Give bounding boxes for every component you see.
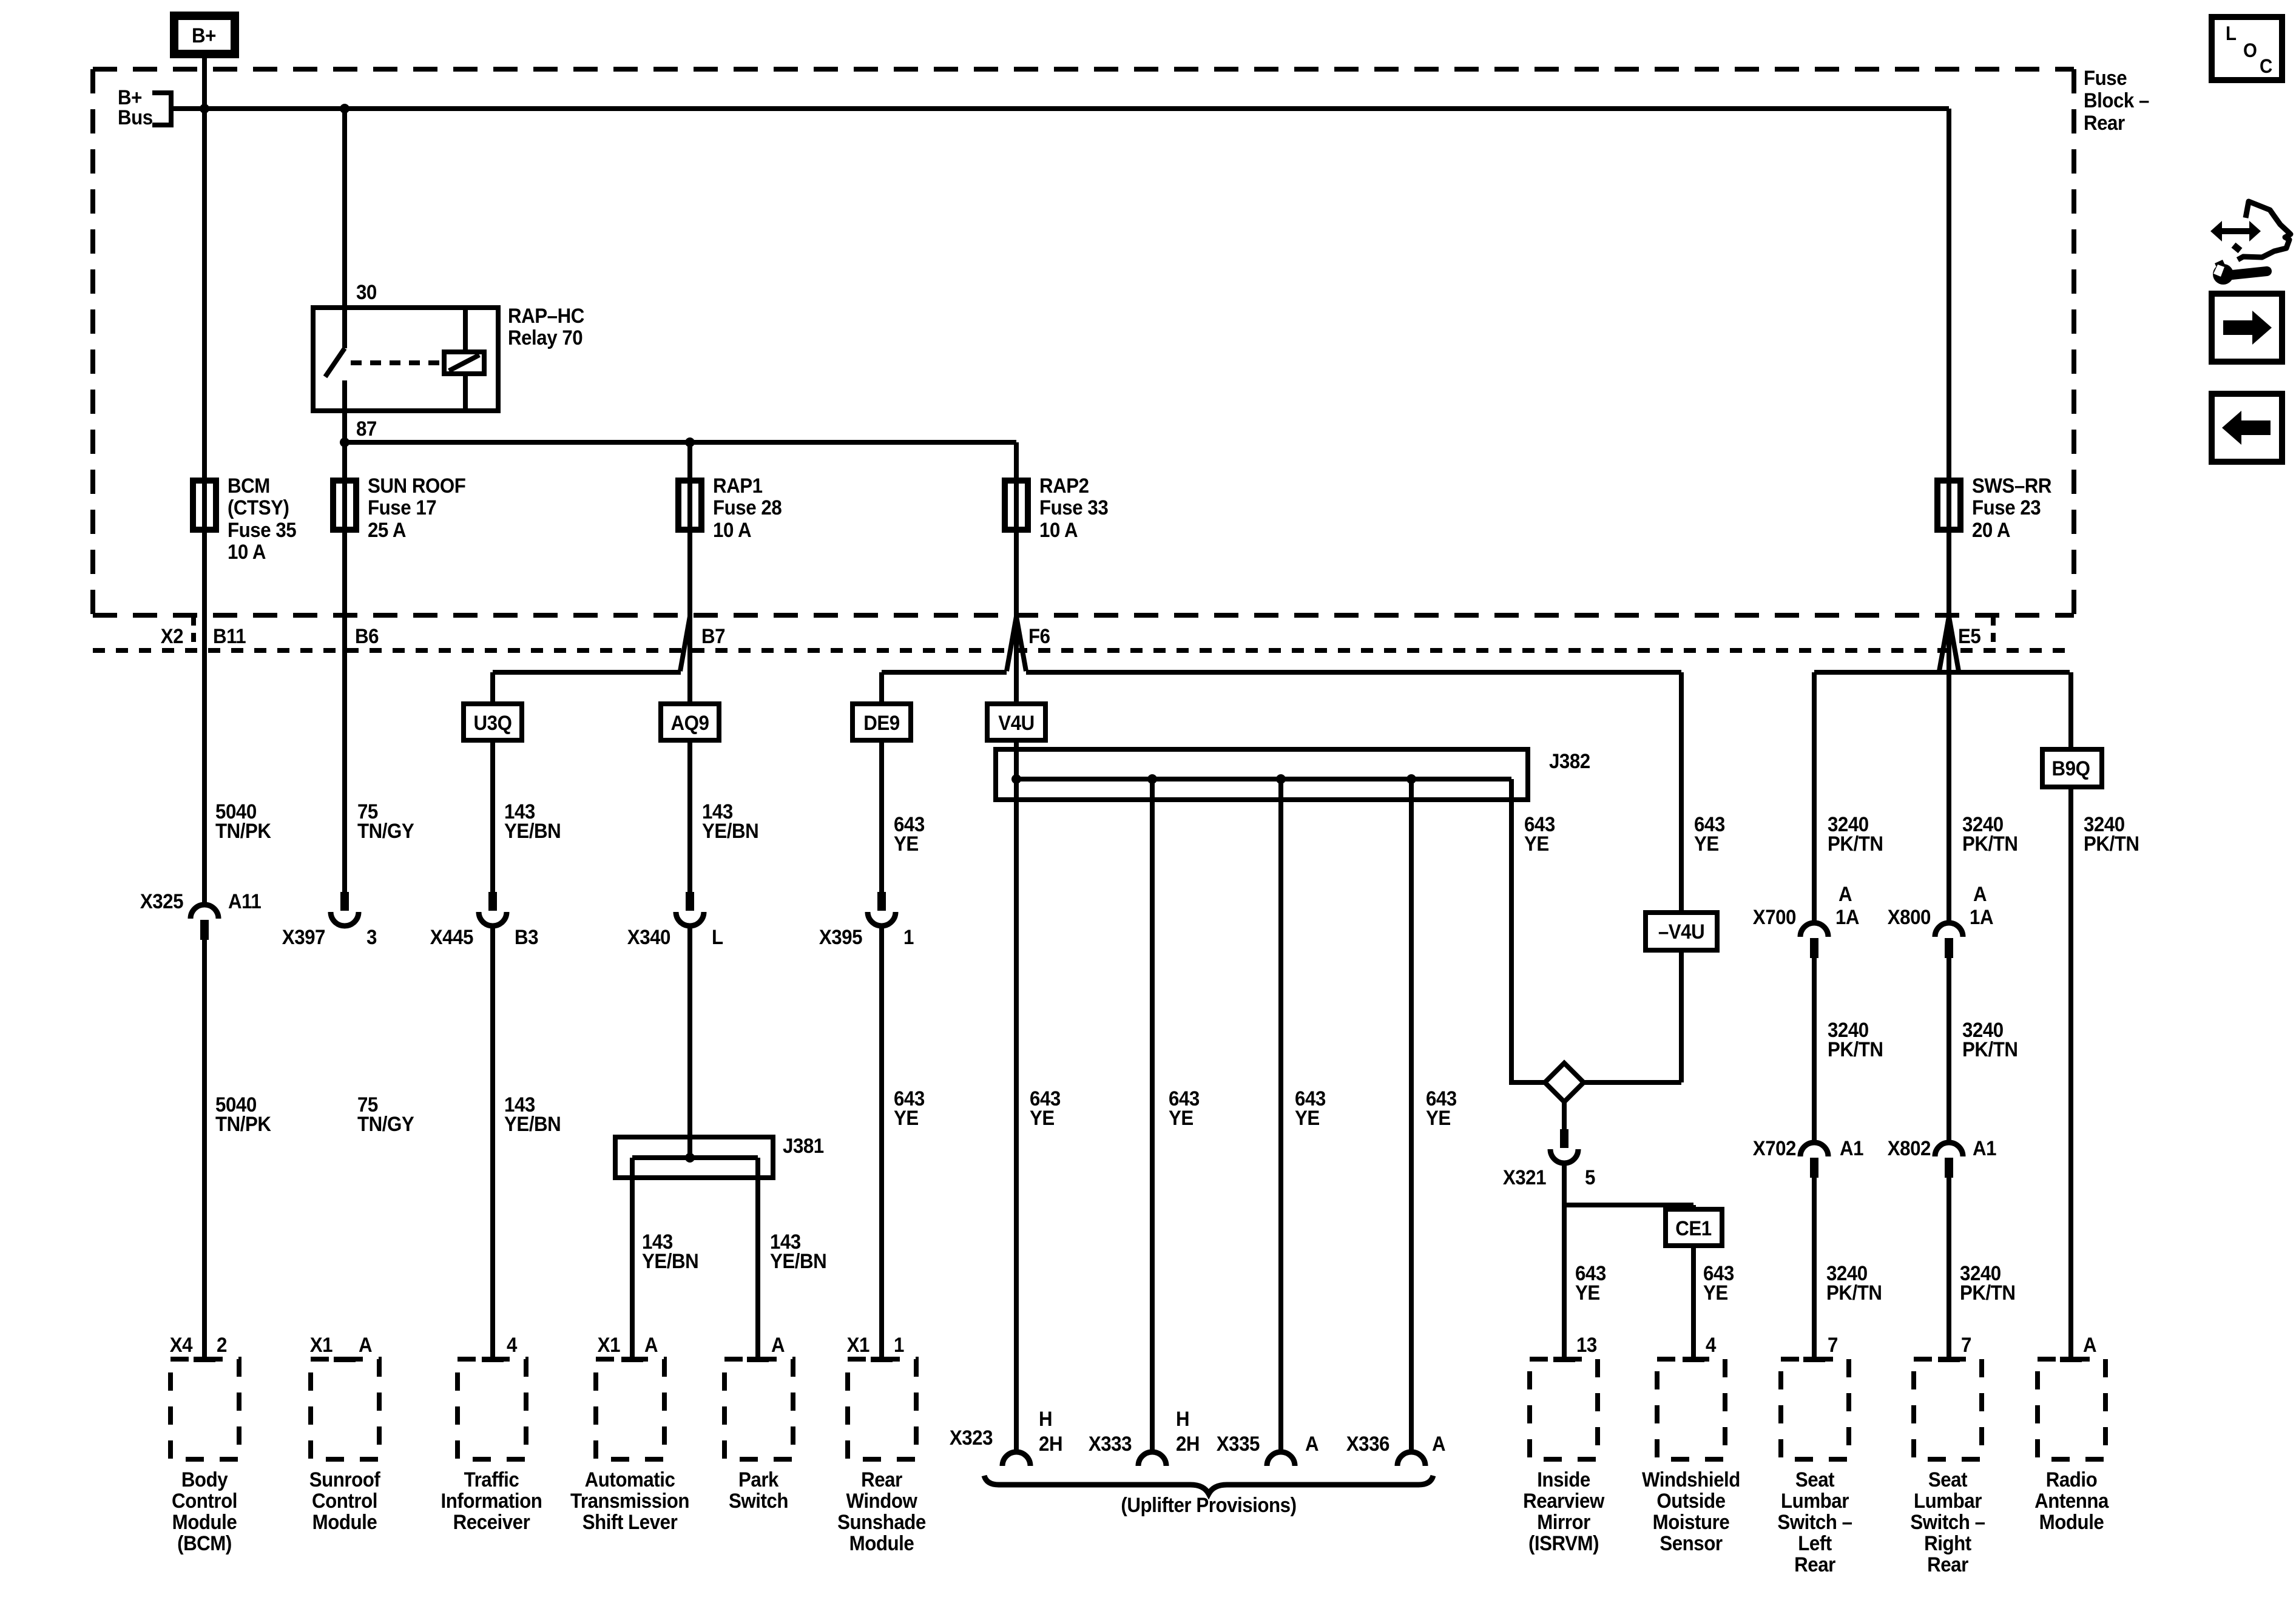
svg-text:YE: YE: [894, 832, 919, 856]
terminal bar Park: [747, 1357, 769, 1362]
svg-text:RAP–HC: RAP–HC: [508, 304, 584, 328]
wire X800 to X802: [1947, 954, 1951, 1143]
svg-text:B9Q: B9Q: [2052, 757, 2090, 780]
wire X395 to Rear Window Sunshade Module: [879, 925, 884, 1359]
svg-text:SWS–RR: SWS–RR: [1972, 474, 2051, 498]
wire X445 to Traffic Information Receiver: [490, 925, 495, 1359]
junction 87/RAP1: [685, 437, 695, 447]
svg-text:Park: Park: [738, 1468, 779, 1491]
svg-text:2H: 2H: [1039, 1432, 1062, 1456]
svg-text:A1: A1: [1840, 1136, 1863, 1160]
svg-text:Traffic: Traffic: [464, 1468, 519, 1491]
svg-text:X335: X335: [1217, 1432, 1260, 1456]
svg-text:Switch –: Switch –: [1910, 1510, 1985, 1534]
svg-text:Module: Module: [2039, 1510, 2104, 1534]
svg-text:A: A: [1305, 1432, 1319, 1456]
svg-text:Fuse 33: Fuse 33: [1039, 496, 1108, 519]
svg-text:Body: Body: [181, 1468, 228, 1491]
svg-text:A: A: [2083, 1333, 2096, 1357]
svg-text:Inside: Inside: [1537, 1468, 1590, 1491]
svg-text:Rear: Rear: [1927, 1553, 1968, 1576]
svg-text:Switch: Switch: [729, 1489, 788, 1513]
icon service hand with double arrow and wrench: [2210, 221, 2261, 241]
connector code box V4U: [987, 704, 1045, 740]
splice junction: [1406, 774, 1416, 784]
svg-text:YE/BN: YE/BN: [504, 819, 561, 843]
svg-text:RAP2: RAP2: [1039, 474, 1089, 498]
icon LOC box: [2212, 17, 2282, 80]
svg-text:PK/TN: PK/TN: [1826, 1281, 1882, 1305]
X2 band right separator: [1991, 616, 1996, 649]
svg-text:10 A: 10 A: [228, 540, 266, 564]
wire X340 to J381: [687, 925, 692, 1158]
svg-text:1A: 1A: [1970, 905, 1993, 929]
svg-text:X1: X1: [847, 1333, 870, 1357]
splice pack J381: [615, 1137, 773, 1178]
svg-text:(ISRVM): (ISRVM): [1528, 1531, 1599, 1555]
svg-text:J381: J381: [783, 1134, 824, 1158]
svg-text:Fuse 35: Fuse 35: [228, 518, 297, 542]
X2 band left separator: [191, 616, 196, 649]
wire X702 to Seat Lumbar Switch Left: [1812, 1175, 1817, 1359]
svg-text:YE: YE: [1295, 1106, 1320, 1130]
terminal bar Radio: [2060, 1357, 2082, 1362]
svg-text:H: H: [1039, 1407, 1052, 1431]
wire B+ bus through SWS-RR fuse to E5: [1947, 109, 1951, 616]
terminal bar Moisture: [1683, 1357, 1704, 1362]
connector band X2 lower dotted line: [93, 648, 2074, 653]
svg-text:CE1: CE1: [1675, 1217, 1712, 1240]
svg-text:YE: YE: [1703, 1281, 1728, 1305]
svg-text:YE/BN: YE/BN: [770, 1249, 826, 1273]
svg-text:DE9: DE9: [863, 711, 899, 735]
diamond splice junction: [1545, 1063, 1584, 1102]
svg-text:TN/PK: TN/PK: [215, 1112, 271, 1136]
svg-text:E5: E5: [1958, 624, 1981, 648]
svg-text:L: L: [712, 925, 723, 949]
wire X325 to BCM: [202, 940, 207, 1359]
fuse block dashed border: [93, 67, 2074, 72]
svg-text:H: H: [1176, 1407, 1189, 1431]
svg-text:X802: X802: [1888, 1136, 1931, 1160]
svg-text:B7: B7: [701, 624, 725, 648]
J382 internal bus: [1016, 777, 1511, 781]
svg-text:7: 7: [1828, 1333, 1838, 1357]
svg-text:Sunroof: Sunroof: [309, 1468, 380, 1491]
relay actuator dashed link: [351, 360, 441, 365]
svg-text:X445: X445: [430, 925, 473, 949]
svg-text:1: 1: [903, 925, 914, 949]
component box Body Control Module: [171, 1359, 239, 1459]
wire diamond right arm: [1584, 1080, 1681, 1085]
svg-text:X397: X397: [282, 925, 325, 949]
wire E5 to X700: [1812, 672, 1817, 923]
svg-text:A1: A1: [1973, 1136, 1996, 1160]
svg-text:Rear: Rear: [2084, 111, 2125, 135]
svg-text:X1: X1: [310, 1333, 333, 1357]
svg-text:(Uplifter Provisions): (Uplifter Provisions): [1121, 1493, 1296, 1517]
wire J382 to X335: [1278, 779, 1283, 1453]
connector code box AQ9: [661, 704, 719, 740]
svg-text:F6: F6: [1028, 624, 1050, 648]
wire J382 to X336: [1409, 779, 1414, 1453]
svg-text:Information: Information: [441, 1489, 542, 1513]
svg-text:YE: YE: [1426, 1106, 1451, 1130]
svg-text:A: A: [1973, 882, 1987, 906]
svg-text:A: A: [1432, 1432, 1445, 1456]
svg-text:Module: Module: [849, 1531, 914, 1555]
svg-text:A: A: [359, 1333, 372, 1357]
wire J381 to Automatic Transmission Shift Lever: [630, 1158, 635, 1359]
wire U3Q to X445: [490, 740, 495, 892]
svg-text:Automatic: Automatic: [585, 1468, 675, 1491]
svg-text:3: 3: [366, 925, 377, 949]
svg-text:X336: X336: [1346, 1432, 1389, 1456]
svg-text:87: 87: [356, 417, 377, 441]
wire bus to relay pin 30: [342, 109, 347, 308]
wire 87 distribution: [345, 440, 1016, 445]
svg-text:X333: X333: [1089, 1432, 1132, 1456]
svg-text:Antenna: Antenna: [2034, 1489, 2109, 1513]
wire AQ9 to X340: [687, 740, 692, 892]
svg-text:Switch –: Switch –: [1777, 1510, 1852, 1534]
wire V4U to J382: [1014, 740, 1019, 779]
svg-text:20 A: 20 A: [1972, 518, 2010, 542]
svg-text:1: 1: [894, 1333, 904, 1357]
svg-text:X323: X323: [950, 1426, 993, 1450]
relay coil: [444, 352, 484, 374]
wire 87 through RAP1 fuse and B7 to AQ9: [687, 442, 692, 704]
svg-text:A: A: [771, 1333, 785, 1357]
icon arrow right box: [2212, 294, 2282, 362]
in-line connector X802: [1935, 1143, 1963, 1156]
svg-text:O: O: [2243, 39, 2257, 61]
svg-text:PK/TN: PK/TN: [1960, 1281, 2016, 1305]
svg-text:B11: B11: [213, 624, 246, 648]
svg-text:Module: Module: [172, 1510, 237, 1534]
svg-text:Receiver: Receiver: [453, 1510, 530, 1534]
svg-text:Sunshade: Sunshade: [837, 1510, 926, 1534]
wire E5 to B9Q: [2068, 672, 2073, 749]
svg-text:YE: YE: [1524, 832, 1549, 856]
wire 87 through RAP2 fuse and F6 to V4U: [1014, 442, 1019, 704]
svg-text:BCM: BCM: [228, 474, 270, 498]
svg-text:Shift Lever: Shift Lever: [582, 1510, 678, 1534]
relay switch contact: [342, 308, 347, 348]
svg-text:4: 4: [507, 1333, 517, 1357]
component box Traffic Information Receiver: [458, 1359, 526, 1459]
svg-text:TN/GY: TN/GY: [357, 1112, 414, 1136]
svg-text:Radio: Radio: [2046, 1468, 2098, 1491]
terminal bar SLL: [1803, 1357, 1825, 1362]
junction B+ bus / relay 30 feed: [340, 104, 349, 113]
svg-text:(CTSY): (CTSY): [228, 496, 289, 519]
wire X321 to ISRVM: [1562, 1163, 1567, 1359]
svg-text:C: C: [2260, 55, 2272, 77]
in-line connector X445: [488, 892, 497, 911]
component box Rear Window Sunshade Module: [848, 1359, 916, 1459]
svg-text:PK/TN: PK/TN: [1828, 832, 1883, 856]
wire down to -V4U: [1679, 672, 1684, 913]
in-line connector X321: [1560, 1129, 1568, 1148]
wire relay 87 down through SUN ROOF fuse and B6 to X397: [342, 411, 347, 892]
wire into DE9: [879, 672, 884, 704]
svg-text:L: L: [2226, 22, 2237, 44]
svg-text:SUN ROOF: SUN ROOF: [368, 474, 465, 498]
svg-text:A: A: [1838, 882, 1852, 906]
svg-text:Block –: Block –: [2084, 89, 2149, 112]
terminal bar SLR: [1938, 1357, 1960, 1362]
svg-text:Sensor: Sensor: [1660, 1531, 1723, 1555]
svg-text:X702: X702: [1753, 1136, 1796, 1160]
wire X700 to X702: [1812, 954, 1817, 1143]
svg-text:B6: B6: [355, 624, 379, 648]
svg-text:YE/BN: YE/BN: [642, 1249, 698, 1273]
junction 87/sunroof: [340, 437, 349, 447]
fuse RAP2 Fuse 33 10A: [1005, 481, 1028, 530]
wire X802 to Seat Lumbar Switch Right: [1947, 1175, 1951, 1359]
svg-text:Left: Left: [1798, 1531, 1832, 1555]
svg-text:1A: 1A: [1835, 905, 1859, 929]
svg-text:PK/TN: PK/TN: [1962, 832, 2018, 856]
svg-text:10 A: 10 A: [1039, 518, 1078, 542]
svg-text:TN/GY: TN/GY: [357, 819, 414, 843]
in-line connector X397: [340, 892, 349, 911]
component box Seat Lumbar Switch Right Rear: [1914, 1359, 1982, 1459]
splice junction: [1011, 774, 1021, 784]
connector code box B9Q: [2042, 749, 2102, 787]
connector code box U3Q: [464, 704, 522, 740]
svg-text:PK/TN: PK/TN: [2084, 832, 2139, 856]
in-line connector X800: [1935, 923, 1963, 937]
splice junction: [685, 1153, 695, 1163]
in-line connector X700: [1800, 923, 1828, 937]
icon arrow left box: [2212, 394, 2282, 462]
in-line connector X325: [191, 905, 218, 919]
svg-text:Rearview: Rearview: [1523, 1489, 1605, 1513]
svg-text:Rear: Rear: [861, 1468, 902, 1491]
wire DE9 to X395: [879, 740, 884, 892]
in-line connector X340: [686, 892, 694, 911]
svg-text:Fuse 28: Fuse 28: [713, 496, 782, 519]
wire F6 to -V4U feed: [1026, 670, 1681, 675]
svg-text:PK/TN: PK/TN: [1828, 1038, 1883, 1061]
svg-text:YE: YE: [1694, 832, 1719, 856]
connector X336: [1397, 1452, 1425, 1466]
component box Seat Lumbar Switch Left Rear: [1781, 1359, 1849, 1459]
svg-text:7: 7: [1961, 1333, 1971, 1357]
wire J381 to Park Switch: [755, 1158, 760, 1359]
svg-text:A: A: [644, 1333, 658, 1357]
connector code box -V4U: [1646, 913, 1717, 950]
svg-text:Right: Right: [1924, 1531, 1971, 1555]
svg-text:Lumbar: Lumbar: [1781, 1489, 1849, 1513]
pin B7 branch diagonal: [680, 616, 690, 671]
connector code box CE1: [1666, 1209, 1722, 1246]
wire B+ to BCM fuse to X325: [202, 58, 207, 905]
svg-text:Control: Control: [172, 1489, 237, 1513]
svg-text:YE: YE: [1169, 1106, 1194, 1130]
J381 internal bus: [632, 1155, 758, 1160]
wire into CE1: [1691, 1205, 1696, 1210]
terminal bar BCM: [194, 1357, 215, 1362]
terminal bar Sunroof: [334, 1357, 356, 1362]
fuse BCM (CTSY) Fuse 35 10A: [193, 481, 216, 530]
brace (Uplifter Provisions): [984, 1476, 1433, 1494]
component box Radio Antenna Module: [2038, 1359, 2105, 1459]
wire J382 to X323: [1014, 779, 1019, 1453]
svg-text:(BCM): (BCM): [177, 1531, 232, 1555]
in-line connector X395: [877, 892, 886, 911]
svg-text:X4: X4: [170, 1333, 193, 1357]
svg-text:5: 5: [1585, 1166, 1595, 1189]
component box Sunroof Control Module: [311, 1359, 379, 1459]
svg-text:X395: X395: [819, 925, 862, 949]
svg-text:TN/PK: TN/PK: [215, 819, 271, 843]
svg-text:4: 4: [1706, 1333, 1716, 1357]
pin F6 lambda: [1007, 616, 1026, 671]
svg-text:30: 30: [356, 280, 377, 304]
svg-text:Rear: Rear: [1794, 1553, 1835, 1576]
connector X323: [1002, 1452, 1030, 1466]
wire CE1 to Windshield Outside Moisture Sensor: [1691, 1246, 1696, 1359]
pin E5 lambda: [1939, 616, 1959, 671]
terminal bar ISRVM: [1553, 1357, 1575, 1362]
svg-text:Seat: Seat: [1928, 1468, 1968, 1491]
fuse SUN ROOF Fuse 17 25A: [333, 481, 356, 530]
svg-text:B+: B+: [192, 24, 216, 47]
svg-text:RAP1: RAP1: [713, 474, 763, 498]
svg-text:X2: X2: [161, 624, 183, 648]
terminal bar Sunshade: [871, 1357, 893, 1362]
svg-text:Control: Control: [312, 1489, 377, 1513]
svg-text:Seat: Seat: [1795, 1468, 1835, 1491]
svg-text:U3Q: U3Q: [474, 711, 512, 735]
wire into U3Q: [490, 672, 495, 704]
svg-text:V4U: V4U: [998, 711, 1034, 735]
svg-text:Mirror: Mirror: [1537, 1510, 1590, 1534]
svg-text:J382: J382: [1549, 749, 1590, 773]
svg-text:Transmission: Transmission: [570, 1489, 689, 1513]
svg-text:13: 13: [1576, 1333, 1597, 1357]
B+ Bus bracket: [152, 90, 171, 95]
wire E5 to X800: [1947, 616, 1951, 923]
wire B+ bus: [171, 106, 1949, 111]
component box Park Switch: [724, 1359, 793, 1459]
svg-text:Lumbar: Lumbar: [1914, 1489, 1982, 1513]
component box Inside Rearview Mirror: [1530, 1359, 1598, 1459]
svg-text:PK/TN: PK/TN: [1962, 1038, 2018, 1061]
svg-text:2H: 2H: [1176, 1432, 1200, 1456]
svg-text:Outside: Outside: [1656, 1489, 1725, 1513]
junction B+ bus / BCM fuse feed: [200, 104, 209, 113]
fuse RAP1 Fuse 28 10A: [678, 481, 701, 530]
svg-text:Window: Window: [846, 1489, 918, 1513]
svg-text:B3: B3: [515, 925, 538, 949]
connector X335: [1267, 1452, 1295, 1466]
wire F6 to DE9: [882, 670, 1007, 675]
component box Windshield Outside Moisture Sensor: [1657, 1359, 1725, 1459]
svg-text:X800: X800: [1888, 905, 1931, 929]
fuse SWS-RR Fuse 23 20A: [1937, 481, 1960, 530]
wire B9Q to Radio Antenna Module: [2068, 787, 2073, 1359]
svg-text:25 A: 25 A: [368, 518, 406, 542]
in-line connector X702: [1800, 1143, 1828, 1156]
svg-text:10 A: 10 A: [713, 518, 751, 542]
svg-text:Fuse 17: Fuse 17: [368, 496, 436, 519]
svg-text:A11: A11: [228, 890, 262, 913]
svg-text:Relay 70: Relay 70: [508, 326, 582, 349]
wire -V4U to diamond: [1679, 950, 1684, 1082]
svg-text:YE/BN: YE/BN: [504, 1112, 561, 1136]
wire E5 distribution: [1814, 670, 2070, 675]
terminal bar ATSL: [621, 1357, 643, 1362]
J382 right end drop: [1511, 779, 1545, 1082]
component box Automatic Transmission Shift Lever: [596, 1359, 664, 1459]
svg-text:Windshield: Windshield: [1642, 1468, 1740, 1491]
wire B7 to U3Q: [493, 670, 681, 675]
svg-text:Module: Module: [312, 1510, 377, 1534]
connector band X2 upper dashed line: [93, 613, 2074, 618]
svg-text:2: 2: [217, 1333, 227, 1357]
svg-text:Fuse: Fuse: [2084, 66, 2127, 90]
wire J382 to X333: [1150, 779, 1155, 1453]
svg-text:X321: X321: [1503, 1166, 1546, 1189]
svg-text:X700: X700: [1753, 905, 1796, 929]
svg-text:X340: X340: [627, 925, 670, 949]
connector code box DE9: [853, 704, 911, 740]
B+ power feed box: [174, 16, 235, 54]
connector X333: [1138, 1452, 1166, 1466]
svg-text:YE: YE: [894, 1106, 919, 1130]
terminal bar Traffic: [482, 1357, 504, 1362]
splice pack J382: [996, 749, 1528, 800]
svg-text:–V4U: –V4U: [1658, 920, 1704, 944]
svg-text:YE: YE: [1030, 1106, 1055, 1130]
splice junction: [1276, 774, 1286, 784]
svg-text:YE: YE: [1575, 1281, 1600, 1305]
wire branch to CE1: [1564, 1203, 1693, 1207]
svg-text:Fuse 23: Fuse 23: [1972, 496, 2041, 519]
relay RAP-HC Relay 70: [313, 308, 498, 411]
svg-text:X1: X1: [598, 1333, 621, 1357]
svg-text:AQ9: AQ9: [671, 711, 709, 735]
svg-text:Moisture: Moisture: [1653, 1510, 1730, 1534]
svg-text:YE/BN: YE/BN: [702, 819, 758, 843]
svg-text:X325: X325: [140, 890, 183, 913]
splice junction: [1147, 774, 1157, 784]
wire diamond to X321: [1562, 1102, 1567, 1129]
svg-text:Bus: Bus: [118, 106, 153, 129]
